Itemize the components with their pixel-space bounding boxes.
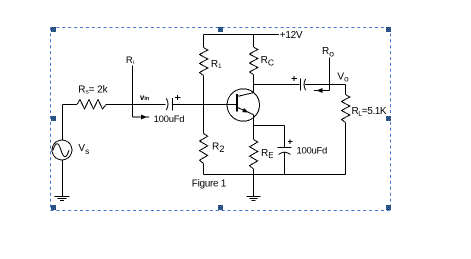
svg-text:R2: R2 [212,142,225,156]
svg-text:RL=5.1K: RL=5.1K [352,106,387,118]
svg-text:Ri: Ri [126,55,134,66]
svg-text:R1: R1 [211,59,222,70]
svg-text:Rs= 2k: Rs= 2k [78,84,108,95]
svg-text:Vo: Vo [337,72,349,84]
svg-text:vin: vin [140,93,150,102]
svg-text:RE: RE [261,148,274,160]
svg-text:100uFd: 100uFd [154,114,185,125]
svg-text:RC: RC [261,55,274,68]
svg-text:+12V: +12V [280,30,303,41]
svg-text:Ro: Ro [322,46,334,59]
svg-text:Vs: Vs [78,143,89,156]
svg-text:100uFd: 100uFd [297,145,328,156]
svg-text:Figure 1: Figure 1 [192,178,227,189]
